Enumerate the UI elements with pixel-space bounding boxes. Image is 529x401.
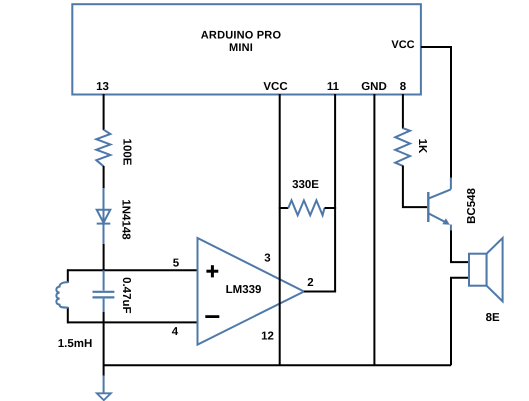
svg-text:MINI: MINI bbox=[229, 42, 253, 54]
wire pin 11 rail down to comparator output bbox=[334, 94, 336, 292]
svg-text:1K: 1K bbox=[416, 139, 428, 154]
wire GND rail down bbox=[373, 94, 375, 365]
label ARDUINO PRO MINI bbox=[201, 30, 282, 55]
diode D1 1N4148 bbox=[97, 188, 111, 244]
wire tank top rail to op-amp + input (pin 5 net) bbox=[67, 269, 197, 271]
svg-text:2: 2 bbox=[307, 277, 313, 289]
wire tank node down to ground rail bbox=[103, 312, 105, 376]
svg-text:11: 11 bbox=[327, 81, 340, 93]
resistor R3 1K (vertical zigzag) bbox=[395, 128, 410, 166]
inductor L1 1.5mH (coil) bbox=[56, 282, 68, 308]
wire 100E to diode bbox=[103, 166, 105, 189]
svg-text:4: 4 bbox=[172, 326, 179, 338]
Arduino Pro Mini box U2 bbox=[72, 4, 421, 94]
svg-text:ARDUINO PRO: ARDUINO PRO bbox=[201, 30, 282, 42]
wire emitter down to speaker top terminal bbox=[451, 231, 469, 263]
svg-text:3: 3 bbox=[264, 253, 270, 265]
svg-text:12: 12 bbox=[261, 331, 274, 343]
svg-text:100E: 100E bbox=[120, 139, 132, 166]
svg-text:VCC: VCC bbox=[391, 39, 414, 51]
svg-text:BC548: BC548 bbox=[466, 188, 478, 224]
wire speaker bottom terminal down to ground rail bbox=[451, 278, 469, 366]
wire pin 8 down to R 1K bbox=[402, 94, 404, 129]
wire comparator output to pin 11 rail bbox=[304, 291, 336, 293]
svg-text:VCC: VCC bbox=[263, 81, 287, 93]
op-amp + input symbol bbox=[206, 265, 218, 277]
speaker LS1 8E bbox=[469, 238, 503, 301]
wire ground rail to ground symbol bbox=[103, 375, 105, 393]
svg-text:1.5mH: 1.5mH bbox=[58, 338, 93, 350]
resistor R2 330E (horizontal zigzag pull-up) bbox=[279, 207, 289, 209]
wire pin 13 down to R 100E bbox=[103, 94, 105, 130]
wire tank bottom rail to op-amp - input (pin 4 net) bbox=[67, 321, 197, 323]
transistor Q1 BC548 bbox=[428, 178, 451, 232]
wire diode to tank node bbox=[103, 244, 105, 271]
capacitor C1 0.47uF bbox=[93, 270, 115, 312]
op-amp - input symbol bbox=[205, 315, 219, 318]
ground symbol bbox=[97, 393, 111, 400]
wire 1K to transistor base bbox=[403, 166, 427, 208]
svg-text:8: 8 bbox=[400, 81, 407, 93]
svg-text:13: 13 bbox=[96, 81, 109, 93]
svg-text:5: 5 bbox=[173, 258, 180, 270]
svg-text:330E: 330E bbox=[292, 179, 319, 191]
svg-text:GND: GND bbox=[361, 81, 387, 93]
resistor 100E (vertical zigzag) bbox=[96, 130, 110, 167]
svg-text:0.47uF: 0.47uF bbox=[120, 277, 132, 313]
svg-text:8E: 8E bbox=[486, 312, 500, 324]
wire inductor bottom leg bbox=[67, 307, 69, 323]
svg-text:1N4148: 1N4148 bbox=[119, 199, 131, 240]
wire from VCC pin to transistor collector rail bbox=[421, 47, 451, 178]
wire inductor top leg bbox=[67, 269, 69, 282]
wire VCC pin rail down through op-amp to ground rail bbox=[279, 94, 281, 365]
ground rail wire (bottom bus) bbox=[104, 364, 451, 366]
op-amp U1 LM339 bbox=[198, 238, 305, 345]
svg-text:LM339: LM339 bbox=[226, 284, 262, 296]
